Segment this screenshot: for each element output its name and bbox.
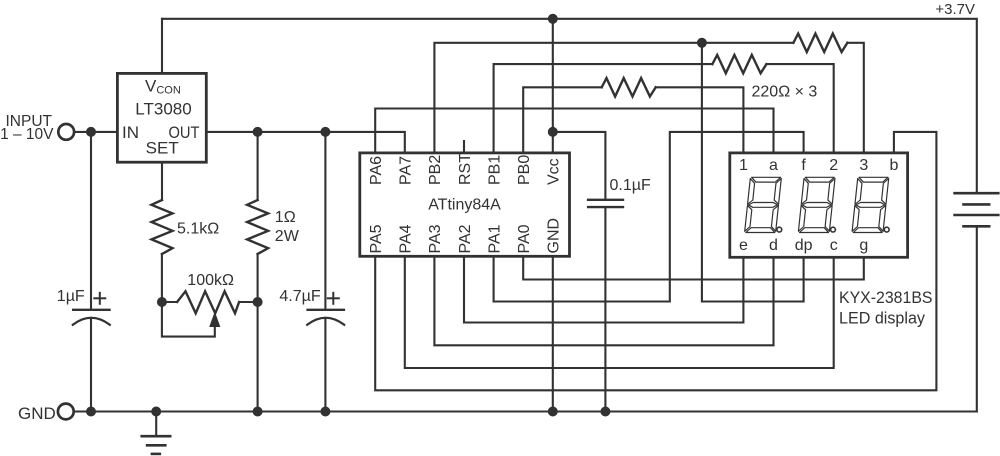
wire ground rail (75, 410, 977, 412)
node dot rail R2 (253, 407, 263, 417)
wire 5.1k bottom to pot node (161, 254, 163, 302)
node dot out C2 (320, 127, 330, 137)
battery B1 plates (955, 193, 999, 226)
capacitor C2 4.7uF plates (308, 309, 344, 311)
wire Vcc vertical (552, 19, 554, 153)
wire pot wiper loop (162, 302, 215, 337)
resistor R2 1ohm 2W (247, 200, 268, 254)
svg-text:ATtiny84A: ATtiny84A (428, 197, 501, 214)
svg-text:0.1µF: 0.1µF (610, 177, 651, 194)
wire PA1 to display pin f (494, 132, 804, 302)
svg-text:100kΩ: 100kΩ (187, 272, 234, 289)
svg-text:VCON: VCON (145, 77, 181, 97)
wire chip GND pin to ground rail (552, 256, 554, 411)
svg-text:PA1: PA1 (486, 224, 503, 253)
svg-text:2W: 2W (275, 228, 300, 245)
potentiometer wiper arrow (209, 312, 220, 328)
svg-text:d: d (769, 237, 778, 254)
wire battery negative to ground rail (976, 226, 978, 411)
svg-text:3: 3 (859, 157, 868, 174)
wire PA0 to display pin g (523, 256, 864, 279)
wire Vcon pin to top rail (161, 19, 163, 74)
seven segment digit 2 (798, 177, 835, 232)
node dot out R2 (253, 127, 263, 137)
svg-text:5.1kΩ: 5.1kΩ (177, 221, 219, 238)
svg-text:RST: RST (457, 153, 474, 185)
node dot PB2 riser (697, 38, 707, 48)
wire 1uF top lead (90, 132, 92, 310)
input terminal circle (58, 124, 74, 140)
wire PB1 to resistor RB (494, 64, 713, 153)
svg-text:PB1: PB1 (486, 155, 503, 185)
svg-text:PB2: PB2 (427, 155, 444, 185)
svg-text:g: g (859, 237, 868, 254)
resistor RA 220ohm (793, 34, 847, 52)
wire earth stem (155, 412, 157, 437)
wire pot right to ground rail (257, 302, 259, 412)
svg-text:IN: IN (122, 123, 139, 142)
svg-text:PA6: PA6 (368, 156, 385, 185)
svg-text:PA0: PA0 (516, 224, 533, 253)
svg-text:GND: GND (18, 404, 56, 423)
decimal point 3 (884, 227, 889, 232)
wire top +3.7V rail (162, 19, 977, 193)
node dot rail C3 (600, 407, 610, 417)
svg-text:SET: SET (146, 139, 179, 158)
wire 0.1uF bottom lead (604, 207, 606, 411)
decimal point 1 (777, 227, 782, 232)
wire PB0 to resistor RC (523, 87, 602, 153)
node dot input (86, 127, 96, 137)
wire 1ohm top lead (257, 132, 259, 200)
LT3080 regulator U1 box (117, 73, 206, 162)
node dot rail earth (151, 407, 161, 417)
node dot pot left (157, 297, 167, 307)
resistor R1 5.1k (152, 200, 173, 254)
svg-text:1: 1 (739, 157, 748, 174)
svg-text:PA4: PA4 (398, 224, 415, 253)
seven segment digit 3 (852, 177, 889, 232)
svg-text:dp: dp (795, 237, 813, 254)
resistor RC 220ohm (602, 78, 656, 96)
ground symbol (142, 436, 171, 454)
svg-text:KYX-2381BS: KYX-2381BS (839, 288, 933, 307)
svg-text:2: 2 (829, 157, 838, 174)
svg-text:PA7: PA7 (398, 156, 415, 185)
wire PA2 to display pin e (464, 256, 743, 322)
resistor RB 220ohm (712, 55, 766, 73)
decimal point 2 (831, 227, 836, 232)
svg-text:4.7µF: 4.7µF (279, 288, 320, 305)
plus sign C1 (94, 293, 105, 304)
svg-text:Vcc: Vcc (546, 158, 563, 185)
svg-text:1Ω: 1Ω (275, 209, 296, 226)
svg-text:LED display: LED display (839, 309, 925, 328)
svg-text:1 – 10V: 1 – 10V (0, 126, 54, 143)
LED display U3 box (730, 153, 908, 257)
wire PA5 to display pin b (375, 132, 936, 390)
svg-text:LT3080: LT3080 (135, 99, 191, 118)
svg-text:c: c (830, 237, 838, 254)
wire RB to display pin 2 (766, 64, 833, 153)
potentiometer left lead (162, 301, 177, 303)
wire RA to display pin 3 (847, 43, 863, 153)
wire RC to display pin 1 (656, 87, 744, 153)
svg-text:PA5: PA5 (368, 224, 385, 253)
wire PA6 to display pin a (375, 109, 773, 153)
svg-text:b: b (889, 157, 898, 174)
wire PB2 node riser to display dp (702, 43, 804, 302)
plus sign C2 (328, 293, 339, 304)
svg-text:+3.7V: +3.7V (935, 1, 975, 18)
svg-text:PA3: PA3 (427, 224, 444, 253)
wire 1uF bottom lead (90, 318, 92, 412)
node dot Vcc C3 (548, 127, 558, 137)
wire PA4 to display pin c (405, 256, 834, 368)
ground terminal circle (58, 404, 74, 420)
wire PA3 to display pin d (434, 256, 773, 345)
wire 0.1uF top lead (553, 132, 606, 200)
svg-text:GND: GND (546, 218, 563, 254)
svg-text:PB0: PB0 (516, 155, 533, 185)
ATtiny84A U2 box (360, 153, 570, 256)
potentiometer R3 100k zigzag (177, 291, 239, 313)
potentiometer right lead (239, 301, 258, 303)
wire RST stub (463, 141, 465, 153)
svg-text:e: e (739, 237, 748, 254)
svg-text:1µF: 1µF (57, 288, 85, 305)
node dot top rail Vcc (548, 14, 558, 24)
wire 4.7uF top lead (324, 132, 326, 310)
node dot pot right (253, 297, 263, 307)
node dot rail GND pin (548, 407, 558, 417)
wire 4.7uF bottom lead (324, 318, 326, 412)
seven segment digit 1 (745, 177, 782, 232)
capacitor C3 0.1uF plates (588, 199, 623, 201)
node dot rail C2 (320, 407, 330, 417)
wire PB2 to resistor RA (434, 43, 793, 153)
svg-text:f: f (801, 157, 806, 174)
wire SET pin to 5.1k (161, 162, 163, 200)
wire OUT to PA7 (206, 132, 404, 153)
node dot rail C1 (86, 407, 96, 417)
capacitor C1 1uF plates (73, 309, 109, 311)
svg-text:220Ω × 3: 220Ω × 3 (752, 84, 818, 101)
svg-text:PA2: PA2 (457, 224, 474, 253)
wire input to IN pin (75, 131, 118, 133)
wire 1ohm bottom lead (257, 254, 259, 302)
svg-text:a: a (769, 157, 778, 174)
